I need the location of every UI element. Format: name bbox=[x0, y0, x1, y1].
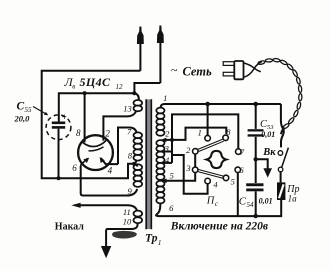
svg-text:1а: 1а bbox=[288, 193, 298, 203]
svg-text:+: + bbox=[62, 112, 67, 122]
svg-text:в: в bbox=[72, 83, 75, 91]
svg-text:5: 5 bbox=[170, 170, 174, 180]
svg-text:0,01: 0,01 bbox=[261, 130, 275, 139]
svg-text:Накал: Накал bbox=[55, 221, 84, 232]
svg-text:8: 8 bbox=[226, 127, 231, 137]
svg-text:20,0: 20,0 bbox=[14, 113, 31, 123]
svg-text:7: 7 bbox=[127, 127, 132, 137]
svg-text:12: 12 bbox=[116, 83, 124, 91]
svg-text:13: 13 bbox=[123, 104, 132, 114]
svg-text:1: 1 bbox=[158, 238, 162, 247]
svg-text:1: 1 bbox=[163, 93, 167, 103]
svg-text:Тр: Тр bbox=[145, 233, 158, 245]
svg-text:1: 1 bbox=[198, 128, 202, 138]
svg-text:10: 10 bbox=[123, 217, 132, 227]
svg-text:~: ~ bbox=[171, 63, 178, 77]
svg-text:0,01: 0,01 bbox=[259, 197, 273, 206]
svg-text:5Ц4С: 5Ц4С bbox=[80, 75, 112, 89]
svg-text:С: С bbox=[17, 101, 25, 113]
svg-text:3: 3 bbox=[185, 163, 190, 173]
svg-text:2: 2 bbox=[186, 145, 191, 155]
svg-text:6: 6 bbox=[72, 163, 77, 173]
svg-text:3: 3 bbox=[164, 144, 169, 154]
svg-text:8: 8 bbox=[76, 128, 81, 138]
svg-text:Вк: Вк bbox=[262, 147, 276, 158]
svg-text:54: 54 bbox=[247, 201, 255, 209]
svg-text:5: 5 bbox=[231, 177, 235, 187]
svg-text:6: 6 bbox=[169, 203, 174, 213]
svg-text:Включение на 220в: Включение на 220в bbox=[170, 221, 268, 233]
svg-text:2: 2 bbox=[105, 129, 110, 139]
svg-text:2: 2 bbox=[165, 128, 170, 138]
svg-text:9: 9 bbox=[128, 186, 133, 196]
svg-text:4: 4 bbox=[108, 166, 113, 176]
svg-text:Сеть: Сеть bbox=[183, 65, 213, 79]
